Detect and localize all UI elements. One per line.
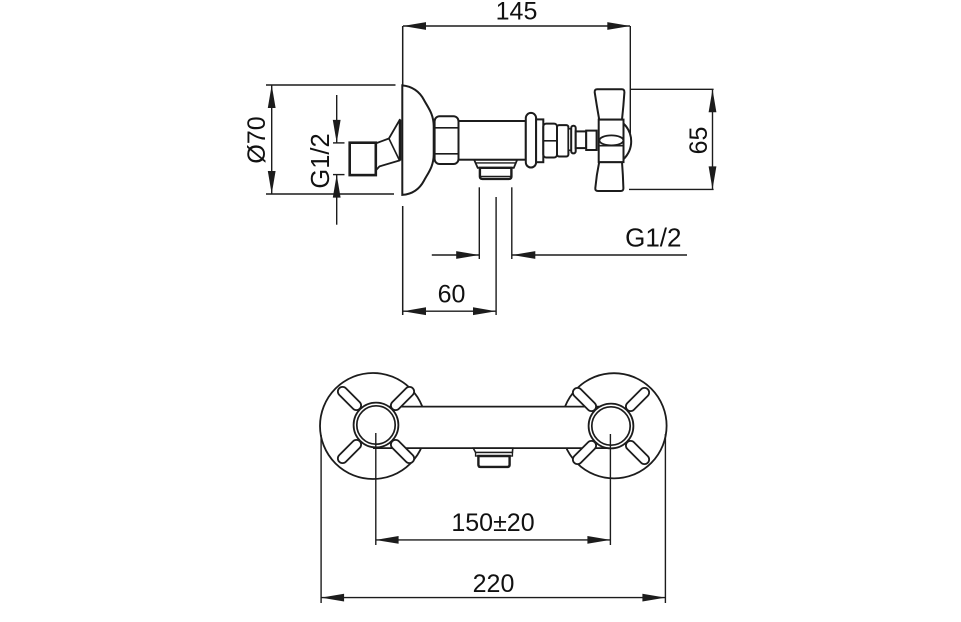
supply pipe square <box>350 143 376 175</box>
handle front arm ellipse <box>599 135 623 145</box>
dimension 65 arrowheads <box>709 89 717 189</box>
right escutcheon circle <box>561 373 666 478</box>
supply cone fitting <box>376 120 400 171</box>
handle hub mid line <box>599 145 624 147</box>
neck <box>568 129 571 150</box>
right hub circles <box>589 404 634 449</box>
shoulder band <box>536 119 543 162</box>
outlet front view <box>473 448 513 467</box>
dimension 220 arrowheads <box>321 594 665 602</box>
svg-text:150±20: 150±20 <box>451 509 534 537</box>
svg-text:145: 145 <box>496 0 538 26</box>
body bar <box>373 407 614 449</box>
left hub circles <box>354 403 399 448</box>
handle dome <box>624 124 632 160</box>
outlet side view <box>474 160 517 179</box>
svg-text:60: 60 <box>438 281 466 309</box>
ring <box>571 126 576 154</box>
svg-text:220: 220 <box>473 570 515 598</box>
stem <box>576 131 587 148</box>
wall / extension line left <box>402 26 404 315</box>
center extension line right <box>609 434 611 545</box>
dimension G1/2 supply arrowheads <box>333 120 341 198</box>
svg-text:65: 65 <box>685 127 713 155</box>
wall flange bell <box>402 85 433 194</box>
dimension 220 <box>321 597 665 599</box>
hex cap <box>543 124 557 158</box>
dimension 150+-20 arrowheads <box>376 536 611 544</box>
collar disc <box>526 113 536 168</box>
outlet extension lines <box>479 187 512 315</box>
dimension 60 <box>403 310 496 312</box>
svg-text:G1/2: G1/2 <box>307 133 335 188</box>
handle hub <box>599 120 624 163</box>
gland band <box>557 125 568 156</box>
dimension O70 arrowheads <box>268 85 276 194</box>
svg-text:G1/2: G1/2 <box>625 223 681 253</box>
valve body <box>459 121 526 160</box>
svg-text:Ø70: Ø70 <box>243 116 271 163</box>
dimension 150+-20 <box>376 539 611 541</box>
G1/2 outlet arrowheads <box>456 251 535 259</box>
dimension 60 arrowheads <box>403 307 496 315</box>
hex nut <box>435 116 459 164</box>
dimension 65 ticks and line <box>629 89 714 189</box>
220 extension lines <box>321 434 665 603</box>
handle top arm <box>595 89 625 119</box>
dimension 145 arrowheads <box>403 22 630 30</box>
center extension line left <box>375 433 377 545</box>
dimension 145 line <box>403 25 630 27</box>
extension line right of 145 <box>629 26 631 133</box>
G1/2 outlet leader lines <box>432 254 687 256</box>
handle bottom arm <box>595 162 623 191</box>
right handle arms <box>571 386 651 466</box>
stem 2 <box>586 131 596 150</box>
left escutcheon circle <box>320 373 426 479</box>
left handle arms <box>336 385 416 465</box>
dimension G1/2 supply <box>333 95 345 225</box>
dimension O70 ticks <box>266 85 396 194</box>
